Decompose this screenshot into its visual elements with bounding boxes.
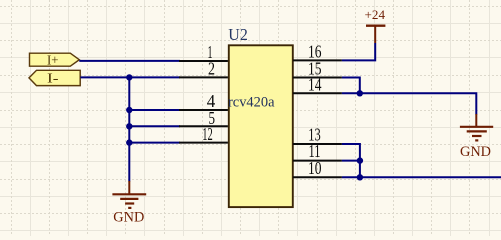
pin 10 bbox=[293, 176, 342, 178]
junction bus pin 5 bbox=[126, 123, 132, 129]
wire I+ to pin 1 bbox=[79, 60, 180, 62]
pin 12 bbox=[179, 142, 228, 144]
junction bus pin 12 bbox=[126, 139, 132, 145]
junction on I- wire bbox=[126, 74, 132, 80]
ground GND left bbox=[112, 181, 146, 226]
pin 2 bbox=[179, 76, 228, 78]
pin 1 bbox=[179, 60, 228, 62]
ground GND right bbox=[460, 114, 493, 160]
junction pin 11 bbox=[357, 157, 363, 163]
port I+ bbox=[30, 53, 80, 68]
wire ground bus vertical bbox=[128, 77, 130, 181]
svg-text:+24: +24 bbox=[365, 7, 386, 22]
wire pin 13 down bus bbox=[342, 144, 360, 177]
wire I- to pin 2 bbox=[80, 76, 180, 78]
pin 13 bbox=[293, 143, 342, 145]
svg-text:2: 2 bbox=[208, 58, 215, 78]
pin 15 bbox=[293, 77, 342, 79]
wire pin 16 to +24 bbox=[342, 43, 375, 60]
junction pin 14/15 bbox=[357, 90, 363, 96]
wire bus to pin 12 bbox=[129, 142, 180, 144]
wire pin 10 to right edge bbox=[342, 176, 501, 178]
pin 5 bbox=[179, 125, 228, 127]
pin 14 bbox=[293, 92, 342, 94]
svg-text:I-: I- bbox=[47, 72, 59, 87]
junction pin 10 bbox=[357, 174, 363, 180]
svg-text:GND: GND bbox=[113, 210, 144, 226]
pin 16 bbox=[293, 59, 342, 61]
pin 4 bbox=[179, 109, 228, 111]
wire bus to pin 4 bbox=[129, 109, 180, 111]
wire pin 11 to bus bbox=[342, 160, 360, 162]
svg-text:rcv420a: rcv420a bbox=[228, 94, 275, 110]
port I- bbox=[29, 70, 80, 86]
wire pin 14 to right gnd bbox=[342, 93, 476, 114]
wire bus to pin 5 bbox=[129, 125, 180, 127]
svg-text:12: 12 bbox=[202, 124, 213, 144]
junction bus pin 4 bbox=[126, 107, 132, 113]
svg-text:I+: I+ bbox=[47, 54, 59, 69]
IC U2 body bbox=[229, 45, 293, 207]
svg-text:10: 10 bbox=[308, 158, 322, 178]
power +24 bbox=[365, 7, 386, 43]
wire pin 15 down to pin 14 bbox=[342, 78, 360, 94]
svg-text:GND: GND bbox=[460, 144, 491, 160]
svg-text:14: 14 bbox=[308, 75, 322, 95]
svg-text:U2: U2 bbox=[228, 25, 248, 44]
pin 11 bbox=[293, 160, 342, 162]
